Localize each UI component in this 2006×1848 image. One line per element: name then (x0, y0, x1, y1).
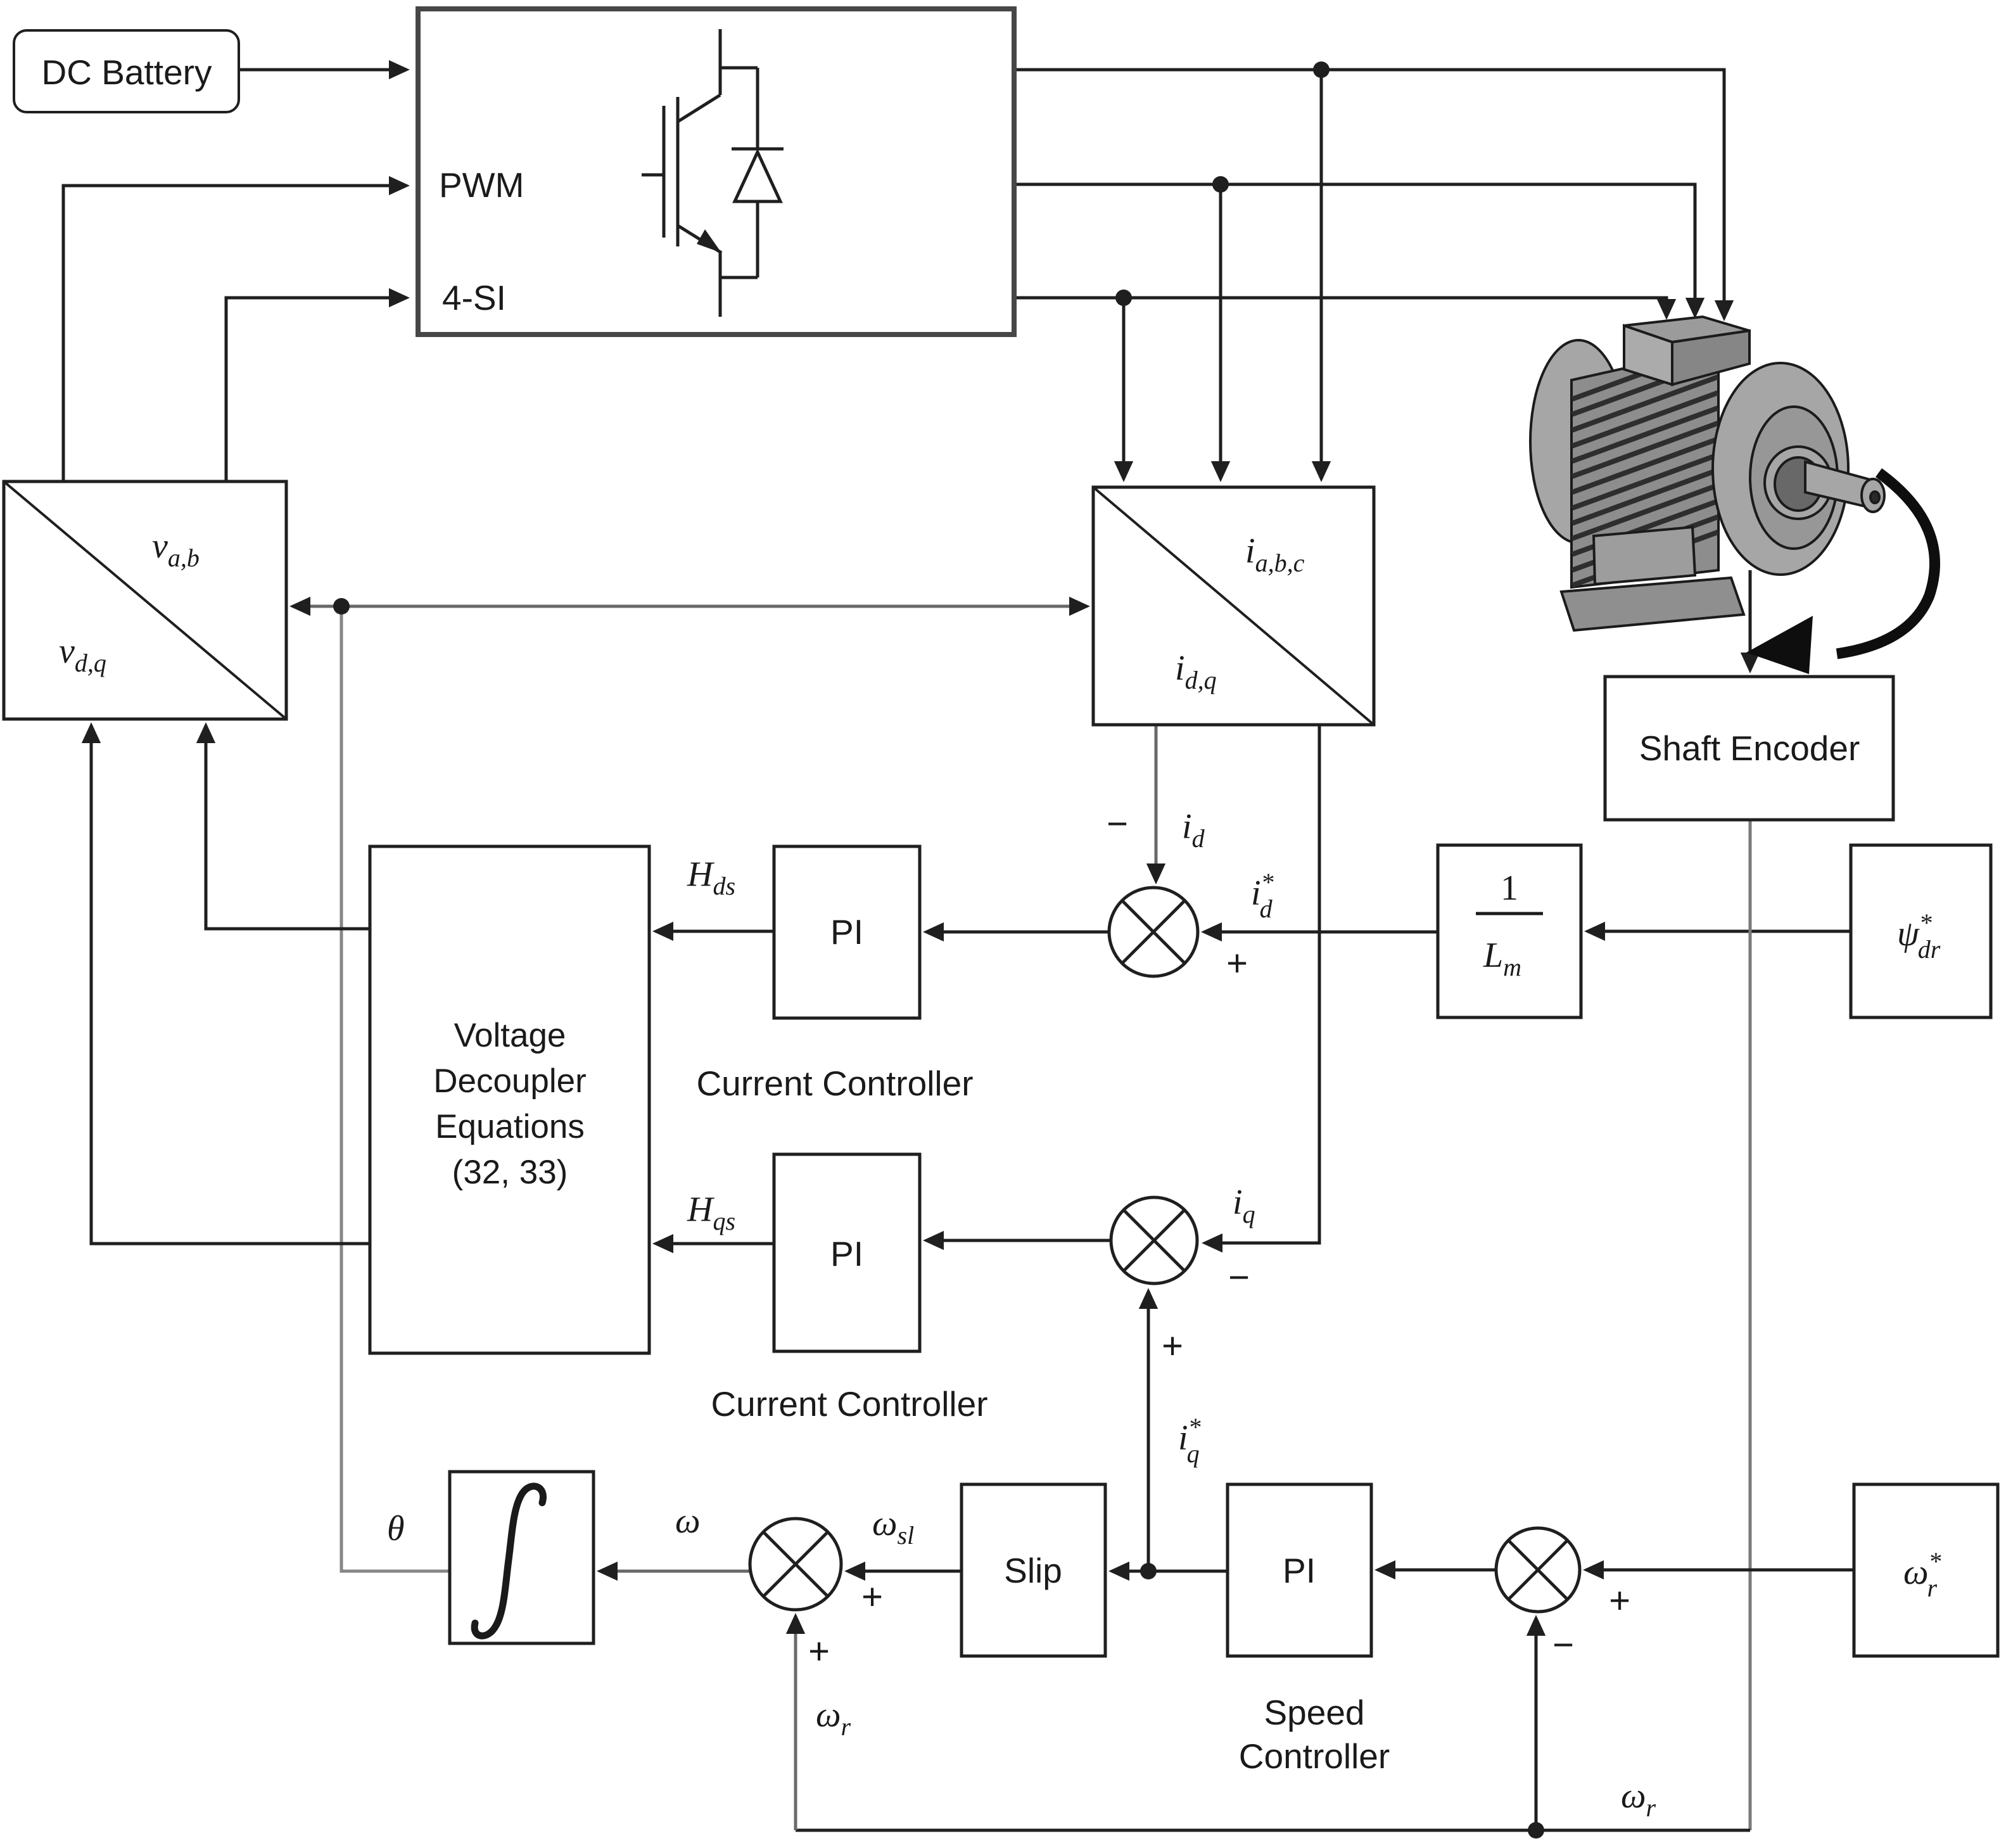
svg-text:Decoupler: Decoupler (433, 1062, 587, 1100)
svg-text:+: + (1609, 1580, 1630, 1621)
svg-text:PI: PI (830, 912, 863, 952)
svg-text:−: − (1107, 803, 1128, 844)
svg-text:PI: PI (830, 1234, 863, 1273)
svg-text:PWM: PWM (439, 165, 524, 205)
svg-text:+: + (861, 1576, 883, 1617)
svg-text:Shaft Encoder: Shaft Encoder (1639, 729, 1860, 768)
svg-text:DC Battery: DC Battery (42, 53, 212, 92)
svg-text:Voltage: Voltage (454, 1017, 566, 1054)
svg-text:Controller: Controller (1239, 1736, 1390, 1776)
svg-text:Current Controller: Current Controller (696, 1064, 973, 1103)
svg-text:1: 1 (1501, 869, 1518, 908)
svg-text:+: + (1226, 943, 1248, 984)
svg-text:θ: θ (387, 1509, 405, 1548)
svg-text:(32, 33): (32, 33) (452, 1154, 568, 1191)
svg-text:+: + (1162, 1325, 1183, 1367)
svg-text:PI: PI (1283, 1551, 1316, 1590)
svg-text:+: + (808, 1631, 830, 1672)
svg-text:−: − (1552, 1624, 1574, 1666)
svg-text:Equations: Equations (435, 1108, 585, 1145)
svg-text:ω: ω (675, 1501, 701, 1541)
svg-text:Slip: Slip (1004, 1551, 1062, 1590)
svg-text:−: − (1228, 1257, 1250, 1298)
svg-text:4-SI: 4-SI (442, 278, 506, 317)
svg-text:Speed: Speed (1264, 1693, 1364, 1732)
svg-text:Current Controller: Current Controller (711, 1384, 987, 1424)
